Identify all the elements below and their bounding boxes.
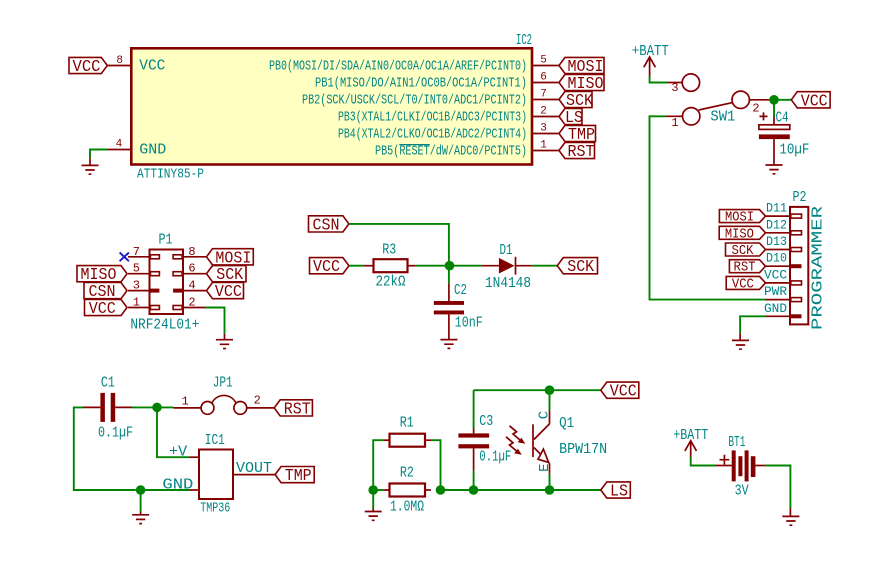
svg-text:P2: P2 [793,189,807,206]
SW1 pin 3 line [668,82,683,84]
svg-text:PROGRAMMER: PROGRAMMER [809,206,826,330]
svg-text:0.1µF: 0.1µF [98,424,133,441]
svg-text:4: 4 [116,139,123,151]
Q1 emitter wire [549,463,551,474]
svg-text:Q1: Q1 [559,415,574,432]
wire +BATT to BT1 [691,457,716,466]
pin 6 line [532,82,559,84]
svg-text:R1: R1 [400,414,414,431]
svg-text:3V: 3V [735,483,749,500]
wire GND node to ground [140,490,142,512]
SW1 pin 1 line [666,115,683,117]
svg-text:SW1: SW1 [710,109,735,126]
global label RST (JP1) [274,400,312,416]
junction node GND [136,485,146,495]
global label TMP (IC2 pin3) [559,125,596,141]
wire VCC top net [474,389,601,391]
global label CSN (P1 pin3) [84,283,127,299]
P2 pin D12 [766,232,791,234]
Q1 collector diagonal [534,424,550,440]
IC IC1 TMP36 body [199,450,233,500]
svg-text:5: 5 [540,55,547,67]
wire GND node to IC1 GND [141,489,190,491]
svg-text:VCC: VCC [801,92,828,111]
P2 pin D10 [766,265,791,267]
svg-text:IC2: IC2 [516,32,532,49]
P2 pin D11 [766,215,791,217]
svg-text:3: 3 [133,279,140,293]
ground symbol (C2) [440,340,457,349]
svg-text:VOUT: VOUT [236,460,272,477]
svg-text:MISO: MISO [725,227,754,242]
svg-text:JP1: JP1 [213,374,233,391]
svg-text:7: 7 [540,89,547,101]
svg-text:GND: GND [764,301,787,316]
capacitor C3 [473,390,475,428]
IC1 pin GND [190,489,199,491]
svg-text:BT1: BT1 [728,434,745,451]
SW1 pin 2 circle [732,91,749,108]
svg-text:NRF24L01+: NRF24L01+ [130,317,199,334]
P1 pin 5 [128,273,150,275]
svg-text:D12: D12 [766,217,787,232]
wire node to C2 [448,266,450,284]
svg-text:2: 2 [752,102,759,116]
svg-text:PB0(MOSI/DI/SDA/AIN0/OC0A/OC1A: PB0(MOSI/DI/SDA/AIN0/OC0A/OC1A/AREF/PCIN… [269,60,527,75]
junction node C3 bottom [469,485,479,495]
svg-text:IC1: IC1 [205,432,225,449]
svg-text:CSN: CSN [313,216,340,235]
svg-text:ATTINY85-P: ATTINY85-P [137,168,204,183]
global label LS (bottom mid) [601,482,631,498]
svg-text:0.1µF: 0.1µF [479,449,511,466]
svg-text:2: 2 [540,106,547,118]
global label MISO (P1 pin5) [77,266,127,282]
svg-text:4: 4 [188,279,195,293]
svg-text:VCC: VCC [732,277,754,292]
svg-text:D1: D1 [500,242,513,259]
SW1 pin 2 line [749,99,769,101]
global label MOSI (P2) [719,210,765,223]
wire C1 left around to GND node [74,407,136,490]
svg-text:RST: RST [734,261,756,276]
svg-text:C1: C1 [101,375,115,392]
svg-text:1: 1 [133,296,140,310]
svg-text:VCC: VCC [89,300,116,319]
global label SCK (P2) [726,243,766,256]
jumper JP1 [174,407,202,409]
svg-text:C2: C2 [454,282,467,299]
P1 pin 1 [128,307,150,309]
svg-text:6: 6 [540,72,547,84]
global label CSN (mid) [309,216,349,232]
Q1 emitter diagonal [534,448,550,464]
wire C4 to ground [773,139,775,165]
wire pin2 to VCC label [769,99,791,101]
svg-text:D13: D13 [766,234,787,249]
svg-text:6: 6 [188,262,195,276]
resistor R3 [364,265,374,267]
svg-text:C: C [537,411,553,419]
global label VCC (mid left) [310,258,349,274]
wire BT1 to ground [766,466,791,509]
svg-text:1.0MΩ: 1.0MΩ [390,498,424,515]
svg-text:E: E [537,463,553,471]
ground symbol (IC1 GND) [132,512,149,524]
junction node R2 left [368,485,378,495]
wire node to ground [372,490,374,508]
svg-text:SCK: SCK [567,258,595,277]
wire CSN to node [349,224,449,261]
capacitor C1 [83,406,100,408]
svg-text:2: 2 [188,296,195,310]
svg-text:TMP: TMP [285,467,312,486]
svg-text:R3: R3 [382,242,396,259]
wire R2 left to ground [373,489,383,491]
svg-text:2: 2 [254,394,261,408]
SW1 pin 1 circle [683,108,700,125]
IC1 pin VOUT [233,474,275,476]
svg-text:TMP36: TMP36 [200,501,230,517]
Q1 light arrow 1 [510,426,521,440]
P1 pin 4 [183,290,206,292]
global label SCK (mid right) [557,258,597,274]
global label SCK (IC2 pin7) [559,91,592,107]
svg-text:PWR: PWR [764,284,787,299]
global label RST (P2) [729,260,765,273]
connector P2 PROGRAMMER body [790,207,808,325]
global label VCC (at SW1) [791,92,830,108]
wire P2 GND to ground [740,316,765,333]
pin 7 line [532,99,559,101]
global label MOSI (IC2 pin5) [559,57,604,73]
svg-text:VCC: VCC [215,283,242,302]
P2 pin GND [766,315,791,317]
svg-text:GND: GND [162,477,193,494]
junction node R2 right [436,485,446,495]
ground symbol (P1 pin2) [216,334,233,349]
C4 plus sign [760,112,768,120]
svg-text:1: 1 [181,395,188,409]
svg-text:PB4(XTAL2/CLKO/OC1B/ADC2/PCINT: PB4(XTAL2/CLKO/OC1B/ADC2/PCINT4) [338,128,527,143]
svg-text:C4: C4 [776,109,789,126]
svg-text:VCC: VCC [73,58,101,77]
wire from pin 4 to ground [90,150,108,159]
P2 pin VCC [766,282,791,284]
svg-text:22kΩ: 22kΩ [376,273,406,290]
diode D1 [481,265,499,267]
SW1 arm pin1 to pin2 [699,103,733,110]
global label VCC (P2) [726,276,765,289]
junction node Q1 collector [545,385,555,395]
Q1 base bar [532,424,534,457]
svg-text:VCC: VCC [139,58,165,75]
wire R1 right [431,440,441,490]
svg-text:VCC: VCC [610,383,637,402]
wire bottom LS net [441,489,601,491]
svg-text:PB2(SCK/USCK/SCL/T0/INT0/ADC1/: PB2(SCK/USCK/SCL/T0/INT0/ADC1/PCINT2) [302,94,527,109]
svg-text:10µF: 10µF [779,142,809,159]
P2 pin PWR [766,299,791,301]
resistor R1 [384,439,390,441]
resistor R2 [384,489,390,491]
pin 1 line [532,150,559,152]
pin 5 line [532,65,559,67]
P1 pin 6 [183,273,206,275]
wire C1 right to node [132,406,157,408]
ground symbol (R2) [365,508,382,520]
P1 pin 8 [183,256,206,258]
pin 4 (GND) of IC2 [108,149,132,151]
global label VCC (bottom mid) [601,382,639,398]
svg-text:RST: RST [568,143,595,162]
wire node to JP1 [157,406,174,408]
svg-text:1: 1 [540,140,547,152]
pin 3 line [532,133,559,135]
global label TMP (IC1) [275,467,314,483]
Q1 collector wire [549,390,551,410]
svg-text:LS: LS [610,483,628,502]
svg-text:3: 3 [540,123,547,135]
global label VCC (P1 pin1) [85,299,128,315]
global label SCK (P1 pin6) [207,266,247,282]
ground symbol (IC2 GND) [82,158,99,174]
svg-text:PB3(XTAL1/CLKI/OC1B/ADC3/PCINT: PB3(XTAL1/CLKI/OC1B/ADC3/PCINT3) [338,111,527,126]
wire node to D1 [450,265,482,267]
BT1 plus sign [720,455,730,465]
ground symbol (C4) [766,165,783,174]
svg-text:MOSI: MOSI [725,211,754,226]
wire P1 pin2 to ground [206,308,225,334]
svg-text:D10: D10 [766,251,787,266]
wire node to IC1 +V [157,407,190,457]
svg-text:VCC: VCC [313,258,340,277]
ground symbol (P2 GND) [732,334,749,350]
pin 8 (VCC) of IC2 [107,65,131,67]
svg-text:RST: RST [284,400,311,419]
svg-text:1N4148: 1N4148 [485,275,531,292]
IC IC2 ATTINY85-P body [131,48,532,164]
IC1 pin +V [190,456,200,458]
svg-text:+V: +V [169,444,187,461]
Q1 emitter arrow [538,449,549,462]
svg-text:GND: GND [139,142,166,159]
global label MISO (IC2 pin6) [559,74,604,90]
svg-text:BPW17N: BPW17N [559,441,607,458]
svg-text:PB5(RESET/dW/ADC0/PCINT5): PB5(RESET/dW/ADC0/PCINT5) [375,145,527,160]
wire VCC to R3 [349,265,364,267]
connector P1 NRF24L01+ body [150,250,184,315]
svg-text:10nF: 10nF [455,315,483,332]
global label RST (IC2 pin1) [559,142,595,158]
SW1 pin 3 circle [682,74,699,91]
svg-text:8: 8 [116,55,123,67]
wire junction to C4 [773,103,775,117]
global label LS (IC2 pin2) [559,108,582,124]
P1 pin 2 [183,307,206,309]
Q1 light arrow 2 [506,437,517,451]
svg-text:5: 5 [133,262,140,276]
capacitor C2 [448,283,450,301]
svg-text:P1: P1 [159,231,173,248]
ground symbol (BT1) [782,508,799,525]
svg-text:SCK: SCK [732,244,755,259]
global label VCC (left of IC2) [69,57,107,73]
P2 pin D13 [766,249,791,251]
global label MISO (P2) [719,226,765,239]
pin 2 line [532,116,559,118]
junction node C1/JP1/+V [152,403,162,413]
wire +BATT to SW1 pin3 [650,76,668,83]
no-connect X on pin 7 [120,253,129,262]
global label VCC (P1 pin4) [207,283,244,299]
capacitor C4 (polarized) [773,117,775,125]
P1 pin 7 [128,256,150,258]
svg-text:7: 7 [133,245,140,259]
global label MOSI (P1 pin8) [207,249,254,265]
wire SW1 pin1 to P2 PWR (long net) [650,116,766,299]
svg-text:3: 3 [671,81,678,95]
svg-text:VCC: VCC [764,267,787,282]
junction node Q1 emitter [545,485,555,495]
svg-text:8: 8 [188,245,195,259]
svg-text:1: 1 [671,116,678,130]
P1 pin 3 [128,290,150,292]
junction node VCC/C4 [769,95,779,105]
svg-text:PB1(MISO/DO/AIN1/OC0B/OC1A/PCI: PB1(MISO/DO/AIN1/OC0B/OC1A/PCINT1) [315,77,527,92]
svg-text:C3: C3 [479,413,493,430]
wire R3 to node [416,265,450,267]
junction node R3/C2/D1 [445,261,455,271]
wire D1 to SCK [532,265,557,267]
svg-text:R2: R2 [400,464,414,481]
battery BT1 [716,465,732,467]
svg-text:D11: D11 [766,201,787,216]
wire R1 left [373,440,383,490]
